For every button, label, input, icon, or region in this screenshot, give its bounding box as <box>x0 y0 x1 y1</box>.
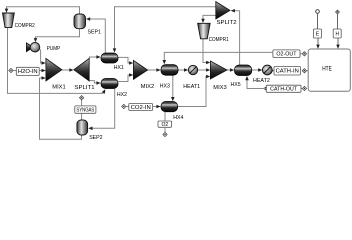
svg-text:HEAT1: HEAT1 <box>183 84 200 90</box>
svg-text:H2O-IN: H2O-IN <box>18 69 38 75</box>
svg-text:COMPR1: COMPR1 <box>209 37 229 43</box>
svg-text:MIX2: MIX2 <box>141 84 154 90</box>
svg-text:O2-OUT: O2-OUT <box>276 52 297 58</box>
svg-text:H: H <box>336 31 339 37</box>
svg-text:O2: O2 <box>161 122 168 128</box>
svg-text:HX4: HX4 <box>173 115 183 121</box>
svg-text:HX3: HX3 <box>160 84 170 90</box>
svg-text:HEAT2: HEAT2 <box>253 78 270 84</box>
svg-text:SPLIT2: SPLIT2 <box>217 20 237 26</box>
svg-text:SYNGAS: SYNGAS <box>76 108 94 114</box>
svg-text:MIX1: MIX1 <box>52 84 65 90</box>
svg-text:MIX3: MIX3 <box>213 85 226 91</box>
svg-text:HTE: HTE <box>322 66 332 72</box>
svg-text:PUMP: PUMP <box>47 46 61 52</box>
svg-text:HX2: HX2 <box>117 92 127 98</box>
svg-text:HX5: HX5 <box>231 82 241 88</box>
svg-text:SEP2: SEP2 <box>89 135 102 141</box>
svg-text:CO2-IN: CO2-IN <box>131 105 151 111</box>
svg-text:COMPR2: COMPR2 <box>15 23 35 29</box>
svg-text:SPLIT1: SPLIT1 <box>75 85 95 91</box>
svg-text:CATH-IN: CATH-IN <box>276 69 299 75</box>
svg-text:SEP1: SEP1 <box>88 30 101 36</box>
svg-text:CATH-OUT: CATH-OUT <box>270 87 298 93</box>
svg-text:HX1: HX1 <box>114 65 124 71</box>
svg-text:E: E <box>316 31 320 37</box>
